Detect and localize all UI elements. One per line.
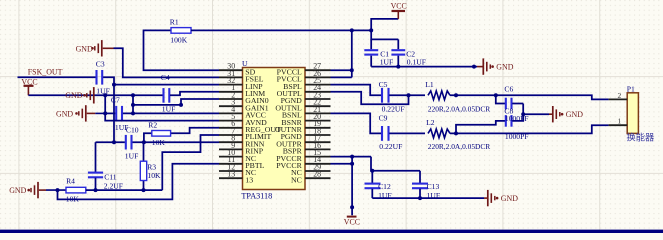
label C2 (406, 50, 415, 59)
wire AVND pin 5 to ground branch (105, 113, 219, 120)
junction rail GAIN0 branch (131, 93, 135, 97)
svg-text:1UF: 1UF (162, 105, 176, 114)
label C11 (104, 173, 117, 182)
power port VCC top (391, 1, 407, 19)
junction R3 bottom (142, 188, 146, 192)
svg-text:220R,2.0A,0.05DCR: 220R,2.0A,0.05DCR (428, 142, 490, 151)
capacitor C5 (382, 88, 389, 103)
wire R1 right to VCC rail (191, 29, 371, 31)
junction GAIN0 jog corner (179, 103, 183, 107)
wire snubber to GND (523, 113, 549, 115)
svg-text:TPA3118: TPA3118 (241, 192, 272, 201)
svg-text:C9: C9 (379, 114, 388, 123)
svg-text:FSK_OUT: FSK_OUT (28, 68, 63, 77)
junction pin27 vertical (350, 68, 354, 72)
label C9 (379, 114, 388, 123)
svg-text:1000PF: 1000PF (505, 132, 529, 141)
label C10 (126, 125, 139, 134)
svg-text:1UF: 1UF (96, 87, 110, 96)
resistor R1 (171, 28, 191, 34)
wire R2 leads (144, 128, 219, 142)
svg-text:GND: GND (76, 44, 93, 53)
junction L1 out (454, 93, 458, 97)
wire to P1 pin2 (496, 95, 609, 99)
label 1UF C10 (125, 152, 139, 161)
svg-text:C10: C10 (126, 125, 139, 134)
svg-text:0.22UF: 0.22UF (379, 142, 402, 151)
svg-text:1: 1 (617, 117, 621, 126)
label 1000PF C6 (505, 114, 529, 123)
label C4 (161, 73, 170, 82)
svg-text:10K: 10K (147, 171, 161, 180)
svg-text:L2: L2 (426, 118, 435, 127)
label C1 (380, 50, 389, 59)
svg-text:C5: C5 (379, 80, 388, 89)
label P1 pin 1 (617, 117, 621, 126)
label R2 (148, 121, 157, 130)
wire BSPL to C5 (331, 85, 382, 96)
label 10K R4 (66, 194, 80, 203)
ground GND top-left (76, 40, 114, 56)
svg-text:1UF: 1UF (380, 58, 394, 67)
wire C12 C13 bottom rail (372, 189, 484, 198)
svg-text:P1: P1 (627, 85, 635, 94)
junction R1-rail pins branch (350, 28, 354, 32)
label P1 pin 2 (617, 91, 621, 100)
junction rail C7 branch (103, 93, 107, 97)
capacitor C3 (97, 70, 103, 85)
wire C7 vertical from rail (104, 95, 106, 113)
wire R4 to R3 bottom rail (86, 189, 163, 191)
svg-text:R1: R1 (170, 17, 179, 26)
wire C1 C2 ground rail (371, 66, 477, 68)
wire L1 out (450, 94, 496, 96)
wire L2 branch to C8 (456, 121, 505, 133)
label 0.22UF C9 (379, 142, 402, 151)
wire LINP down to RINN (113, 85, 115, 143)
IC pin names (245, 67, 302, 184)
wire FSK_OUT to C3 (18, 76, 96, 78)
svg-text:VCC: VCC (344, 218, 360, 227)
junction C5 L1 node (407, 93, 411, 97)
junction C2 bottom (396, 65, 400, 69)
wire GND to FSEL pin 31 (114, 48, 220, 77)
op-amp U1 TPA3118 body (243, 68, 306, 190)
resistor R4 (66, 187, 86, 193)
svg-text:R2: R2 (148, 121, 157, 130)
junction PBTL drop (56, 188, 60, 192)
P1 pin stubs (609, 99, 628, 125)
net label FSK_OUT (28, 68, 63, 77)
junction C11 bottom (94, 188, 98, 192)
wire L2 out to P1 pin1 (450, 125, 609, 133)
svg-text:C6: C6 (504, 84, 513, 93)
resistor R3 (140, 161, 146, 180)
svg-text:10K: 10K (152, 138, 166, 147)
label R4 (66, 177, 75, 186)
svg-text:C11: C11 (104, 173, 117, 182)
svg-text:GND: GND (56, 110, 73, 119)
label 100K (170, 35, 187, 44)
wire C3 to LINP pin 32 (103, 77, 219, 84)
inductor L1 (428, 91, 450, 100)
wire C5 out to L1 (389, 94, 425, 96)
label 10K R3 (147, 171, 161, 180)
label C12 (378, 182, 391, 191)
label C3 (96, 59, 105, 68)
wire PLIMIT net (162, 135, 219, 190)
connector P1 body (627, 93, 638, 134)
svg-text:100K: 100K (170, 35, 187, 44)
wire PBTL net (58, 164, 220, 200)
svg-text:0.1UF: 0.1UF (407, 58, 426, 67)
label C13 (427, 182, 440, 191)
capacitor C7 (116, 106, 122, 121)
svg-text:换能器: 换能器 (626, 132, 655, 144)
svg-text:GND: GND (496, 63, 513, 72)
capacitor C12 (365, 184, 381, 189)
capacitor C8 (506, 115, 512, 127)
ground GND snubber (549, 106, 583, 122)
junction snubber GND (521, 112, 525, 116)
svg-text:C13: C13 (427, 182, 440, 191)
capacitor C4 (164, 88, 170, 103)
wire C8 right stub (512, 114, 523, 121)
wire PVCCL pins 27 26 to VCC rail (331, 30, 352, 77)
label L2 value (428, 142, 490, 151)
wire C4 to LINM pin 1 (170, 92, 219, 96)
label C6 (504, 84, 513, 93)
label 1UF C4 (162, 105, 176, 114)
capacitor C11 (88, 173, 103, 178)
junction L2 out (454, 131, 458, 135)
wire C11 top stub (95, 142, 97, 172)
IC pin stubs (219, 70, 331, 178)
svg-text:1UF: 1UF (125, 152, 139, 161)
label 10K R2 (152, 138, 166, 147)
svg-text:VCC: VCC (21, 77, 37, 86)
svg-text:NC: NC (291, 175, 302, 184)
wire BSNL to C9 (331, 113, 382, 133)
svg-text:R4: R4 (66, 177, 75, 186)
wire C2 stubs (397, 39, 399, 66)
wire C7 to AVCC pin 4 (105, 112, 219, 114)
label L1 (425, 80, 434, 89)
junction pin15 (350, 155, 354, 159)
svg-text:C7: C7 (111, 96, 120, 105)
capacitor C10 (126, 135, 132, 150)
capacitor C6 (506, 98, 512, 110)
label 1UF C7 (115, 123, 129, 132)
svg-text:C4: C4 (161, 73, 170, 82)
svg-text:GND: GND (65, 91, 82, 100)
label C7 (111, 96, 120, 105)
svg-text:13: 13 (227, 170, 235, 179)
wire RINN row left (96, 141, 220, 143)
wire C1 stubs (370, 39, 372, 66)
label P1 (627, 85, 635, 94)
label 2.2UF (104, 182, 123, 191)
power port VCC bottom (344, 205, 360, 226)
wire C12 C13 top rail (371, 157, 420, 183)
label 1UF C3 (96, 87, 110, 96)
svg-text:GND: GND (9, 186, 26, 195)
junction C7 right (131, 111, 135, 115)
capacitor C2 (391, 50, 405, 54)
wire VCC rail to C4 (28, 94, 163, 96)
junction C13 bottom (418, 196, 422, 200)
ground GND C12C13 (484, 190, 518, 206)
svg-text:C12: C12 (378, 182, 391, 191)
wire VCC top loop (371, 19, 398, 40)
junction LINP (112, 83, 116, 87)
junction C6 tap (494, 93, 498, 97)
label U designator (242, 59, 248, 68)
junction GAIN0 corner (131, 103, 135, 107)
ground GND C7 (56, 105, 105, 121)
label transducer (626, 132, 655, 144)
wire C6 left stub (496, 95, 505, 103)
label 1UF C1 (380, 58, 394, 67)
label 1UF C13 (427, 191, 441, 200)
svg-text:13: 13 (245, 175, 253, 184)
junction C7 left (103, 111, 107, 115)
junction RINN LINP drop (112, 140, 116, 144)
svg-text:VCC: VCC (391, 1, 407, 10)
wire GAIN0 branch (133, 95, 219, 113)
capacitor C1 (364, 50, 378, 54)
junction C12 top (370, 169, 374, 173)
junction RINN R2 R3 (142, 140, 146, 144)
wire C6 right to GND vertical (512, 104, 523, 122)
wire C11 bottom stub (95, 178, 97, 190)
IC pin numbers (227, 62, 321, 179)
wire R3 leads (143, 142, 145, 190)
label L2 (426, 118, 435, 127)
junction before GND right (472, 65, 476, 69)
capacitor C13 (412, 184, 428, 189)
svg-text:GND: GND (501, 194, 518, 203)
inductor L2 (428, 129, 450, 138)
svg-text:C3: C3 (96, 59, 105, 68)
power port VCC left (21, 77, 37, 95)
label C8 (504, 106, 513, 115)
label C5 (379, 80, 388, 89)
ground GND R4 (9, 182, 66, 198)
label TPA3118 (241, 192, 272, 201)
label 1000PF C8 (505, 132, 529, 141)
label L1 value (428, 105, 490, 114)
svg-text:GND: GND (566, 110, 583, 119)
label 0.22UF C5 (382, 104, 405, 113)
wire C9 out to L2 (389, 132, 425, 134)
label 1UF C12 (378, 191, 392, 200)
svg-text:0.22UF: 0.22UF (382, 104, 405, 113)
resistor R2 (152, 131, 171, 137)
capacitor C9 (382, 126, 389, 141)
svg-text:28: 28 (313, 170, 321, 179)
ground GND C1C2 (477, 58, 514, 74)
wire OUTPL loop under C5 (331, 92, 409, 105)
svg-text:L1: L1 (425, 80, 434, 89)
wire PVCCR pins 15 14 (331, 157, 372, 216)
label R1 (170, 17, 179, 26)
label R3 (147, 162, 156, 171)
wire R1 left lead and SD net to pin 30 (144, 30, 220, 70)
ground GND on rail (65, 87, 94, 103)
svg-text:2: 2 (617, 91, 621, 100)
junction R1-rail C1C2 branch (369, 28, 373, 32)
label 0.1UF (407, 58, 426, 67)
junction pin14 (350, 162, 354, 166)
sheet border bottom (0, 230, 663, 233)
svg-text:220R,2.0A,0.05DCR: 220R,2.0A,0.05DCR (428, 105, 490, 114)
